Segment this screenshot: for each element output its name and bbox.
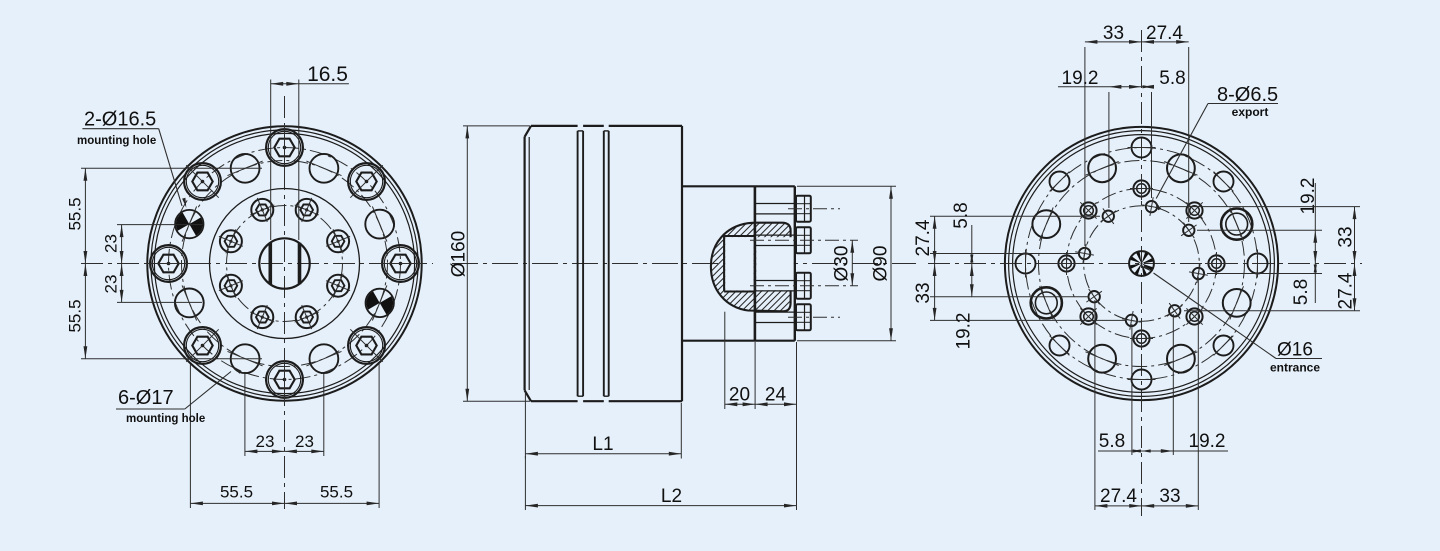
clamp bolt 3 (side view) bbox=[756, 273, 811, 299]
dim 55.5/55.5 horizontal bottom bbox=[190, 364, 379, 508]
left view center bore with keyways bbox=[259, 238, 309, 288]
right view: output flange face bbox=[1005, 127, 1278, 400]
hole at 135 deg, outer ring bbox=[1050, 172, 1070, 192]
svg-text:L1: L1 bbox=[592, 434, 613, 455]
dim dia160 bbox=[449, 126, 531, 401]
hole at 180 deg, outer ring bbox=[1016, 250, 1036, 278]
left view bolt circles (dash-dot) bbox=[169, 148, 401, 380]
svg-text:27.4: 27.4 bbox=[1146, 23, 1183, 44]
hole dia17 at 112.5 deg bbox=[1086, 154, 1119, 182]
dim 27.4/33 bottom bbox=[1095, 277, 1198, 510]
hole dia17 at 247.5 deg bbox=[1086, 345, 1119, 373]
hole dia6.5 at 305 deg bbox=[1167, 303, 1183, 319]
inner hex screw at 22.5 deg bbox=[326, 229, 350, 253]
hole dia6.5 at 260 deg bbox=[1122, 311, 1141, 330]
svg-text:5.8: 5.8 bbox=[1291, 279, 1312, 305]
svg-text:27.4: 27.4 bbox=[913, 219, 934, 256]
svg-text:19.2: 19.2 bbox=[1189, 431, 1226, 452]
label 8-dia6.5 export bbox=[1155, 84, 1278, 210]
svg-text:Ø90: Ø90 bbox=[871, 246, 892, 282]
counterbored screw hole at 45 deg, mid ring bbox=[1186, 202, 1202, 218]
hole dia17 at 292.5 deg bbox=[1164, 345, 1197, 373]
hole dia6.5 at 125 deg bbox=[1101, 208, 1117, 224]
label 6-dia17 mounting hole bbox=[116, 366, 242, 425]
svg-text:entrance: entrance bbox=[1270, 361, 1320, 375]
counterbored screw hole at 225 deg, mid ring bbox=[1080, 308, 1096, 324]
svg-text:19.2: 19.2 bbox=[1062, 68, 1099, 89]
mounting hole dia17 at 67.5 deg bbox=[306, 154, 341, 183]
hole dia6.5 at 215 deg bbox=[1086, 289, 1102, 305]
hole at 270 deg, outer ring bbox=[1128, 370, 1156, 390]
dim 27.4/33 left bbox=[913, 216, 1125, 320]
counterbored screw hole at 180 deg, mid ring bbox=[1055, 252, 1078, 275]
svg-text:5.8: 5.8 bbox=[951, 202, 972, 228]
label 2-dia16.5 mounting hole bbox=[77, 109, 186, 208]
svg-text:55.5: 55.5 bbox=[66, 197, 85, 230]
counterbored screw hole at 270 deg, mid ring bbox=[1130, 327, 1153, 350]
hole dia17 at 337.5 deg bbox=[1223, 286, 1251, 319]
hole dia6.5 at 170 deg bbox=[1075, 244, 1094, 263]
dim 33/27.4 top bbox=[1085, 23, 1189, 246]
inner hex screw at 112.5 deg bbox=[250, 198, 274, 222]
svg-text:27.4: 27.4 bbox=[1336, 272, 1357, 309]
svg-text:export: export bbox=[1232, 105, 1269, 119]
hex socket screw at 90 deg, outer ring bbox=[266, 125, 303, 171]
svg-text:L2: L2 bbox=[661, 486, 682, 507]
inner hex screw at 157.5 deg bbox=[219, 229, 243, 253]
side view centerline bbox=[452, 263, 916, 265]
mounting hole dia17 at 112.5 deg bbox=[228, 154, 263, 183]
right view bolt circles bbox=[1026, 148, 1258, 380]
svg-text:33: 33 bbox=[1336, 226, 1357, 247]
hole dia6.5 at 350 deg bbox=[1189, 264, 1208, 283]
counterbored screw hole at 135 deg, mid ring bbox=[1080, 202, 1096, 218]
hex socket screw at 0 deg, outer ring bbox=[378, 245, 424, 282]
hole at 0 deg, outer ring bbox=[1248, 250, 1268, 278]
svg-text:55.5: 55.5 bbox=[66, 299, 85, 332]
dim 55.5/55.5 vertical left bbox=[66, 168, 263, 358]
left view: input flange face bbox=[147, 126, 421, 400]
svg-text:Ø30: Ø30 bbox=[832, 246, 853, 282]
dim 16.5 keyway width, top bbox=[271, 63, 349, 240]
hole at 315 deg, outer ring bbox=[1214, 336, 1234, 356]
side view output section outline bbox=[682, 186, 795, 340]
dim dia30 bbox=[832, 240, 855, 285]
svg-text:55.5: 55.5 bbox=[220, 483, 253, 502]
clamp bolt 1 (side view) bbox=[756, 196, 811, 222]
inner hex screw at 292.5 deg bbox=[295, 305, 319, 329]
mounting hole dia17 at 22.5 deg bbox=[365, 207, 394, 242]
hole dia17 at 157.5 deg bbox=[1032, 208, 1060, 241]
hex socket screw at 45 deg, outer ring bbox=[348, 163, 385, 200]
hole at 225 deg, outer ring bbox=[1050, 336, 1070, 356]
svg-text:20: 20 bbox=[729, 385, 750, 406]
hex socket screw at 315 deg, outer ring bbox=[348, 327, 385, 364]
svg-text:8-Ø6.5: 8-Ø6.5 bbox=[1217, 84, 1278, 106]
center hole dia16 pinwheel bbox=[1129, 251, 1154, 276]
dim 19.2/5.8 right bbox=[1197, 178, 1322, 306]
dim L2 bbox=[525, 456, 796, 510]
svg-text:55.5: 55.5 bbox=[320, 483, 353, 502]
svg-text:33: 33 bbox=[1159, 486, 1180, 507]
hex socket screw at 270 deg, outer ring bbox=[266, 357, 303, 403]
inner hex screw at 67.5 deg bbox=[295, 198, 319, 222]
output hub sectioned bell with hatching bbox=[540, 170, 985, 340]
mounting hole dia17 at 247.5 deg bbox=[228, 344, 263, 373]
dim 5.8/19.2 left bbox=[930, 202, 1089, 349]
counterbored screw hole at 90 deg, mid ring bbox=[1130, 177, 1153, 200]
svg-text:19.2: 19.2 bbox=[954, 313, 975, 350]
clamp bolt 4 (side view) bbox=[756, 304, 811, 330]
dim 33/27.4 right bbox=[1160, 207, 1360, 311]
dim 19.2/5.8 top bbox=[1058, 68, 1186, 208]
svg-text:mounting hole: mounting hole bbox=[126, 413, 205, 425]
svg-text:24: 24 bbox=[765, 385, 787, 406]
filled mounting hole dia16.5 at 157.5 deg bbox=[175, 207, 203, 242]
svg-text:23: 23 bbox=[256, 432, 275, 451]
inner hex screw at 202.5 deg bbox=[219, 274, 243, 298]
svg-text:mounting hole: mounting hole bbox=[77, 135, 156, 147]
mounting hole dia17 at 202.5 deg bbox=[175, 285, 204, 320]
counterbored screw hole at 0 deg, mid ring bbox=[1205, 252, 1228, 275]
hub bore rectangle (white) bbox=[724, 186, 794, 340]
hole dia6.5 at 80 deg bbox=[1142, 197, 1161, 216]
svg-text:Ø16: Ø16 bbox=[1277, 340, 1313, 361]
hex socket screw at 225 deg, outer ring bbox=[184, 327, 221, 364]
svg-text:2-Ø16.5: 2-Ø16.5 bbox=[84, 109, 156, 131]
svg-text:Ø160: Ø160 bbox=[449, 231, 470, 277]
svg-text:19.2: 19.2 bbox=[1298, 178, 1319, 215]
svg-text:16.5: 16.5 bbox=[307, 63, 348, 86]
svg-text:33: 33 bbox=[1103, 23, 1124, 44]
hole dia17 at 67.5 deg bbox=[1164, 154, 1197, 182]
svg-text:5.8: 5.8 bbox=[1099, 431, 1125, 452]
clamp bolt 2 (side view) bbox=[756, 227, 811, 253]
label dia16 entrance bbox=[1143, 265, 1322, 375]
dim 23/23 horizontal bottom bbox=[245, 374, 324, 456]
svg-text:6-Ø17: 6-Ø17 bbox=[118, 387, 174, 409]
counterbored hole dia16.5 at 22.5 deg bbox=[1221, 208, 1252, 241]
svg-text:23: 23 bbox=[102, 234, 121, 253]
hole at 90 deg, outer ring bbox=[1128, 138, 1156, 158]
hole dia6.5 at 35 deg bbox=[1181, 223, 1197, 239]
filled mounting hole dia16.5 at 337.5 deg bbox=[366, 285, 394, 320]
counterbored hole dia16.5 at 202.5 deg bbox=[1031, 286, 1062, 319]
bolt centerlines (mid bolts) bbox=[750, 209, 858, 318]
inner hex screw at 247.5 deg bbox=[250, 305, 274, 329]
dim 5.8/19.2 bottom bbox=[1098, 314, 1228, 455]
mounting hole dia17 at 292.5 deg bbox=[306, 344, 341, 373]
svg-text:23: 23 bbox=[295, 432, 314, 451]
svg-text:33: 33 bbox=[913, 282, 934, 303]
dim L1 bbox=[525, 392, 681, 459]
inner hex screw at 337.5 deg bbox=[326, 274, 350, 298]
hex socket screw at 135 deg, outer ring bbox=[184, 163, 221, 200]
dim dia90 bbox=[797, 186, 896, 340]
right view centerlines bbox=[928, 30, 1362, 516]
left view centerlines bbox=[81, 96, 433, 509]
dim 23/23 vertical left inner bbox=[102, 225, 203, 303]
svg-text:27.4: 27.4 bbox=[1100, 486, 1137, 507]
svg-text:23: 23 bbox=[102, 275, 121, 294]
dims 20 and 24 bbox=[725, 312, 797, 510]
hole at 45 deg, outer ring bbox=[1214, 172, 1234, 192]
side view main body outline bbox=[525, 126, 682, 401]
svg-text:5.8: 5.8 bbox=[1159, 68, 1185, 89]
hex socket screw at 180 deg, outer ring bbox=[146, 245, 192, 282]
counterbored screw hole at 315 deg, mid ring bbox=[1186, 308, 1202, 324]
